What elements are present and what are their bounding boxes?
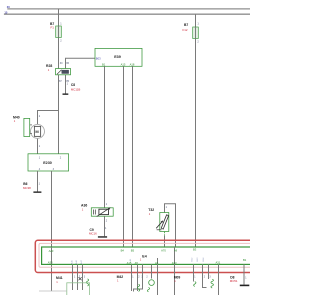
svg-text:2: 2 — [39, 115, 41, 118]
svg-text:1: 1 — [67, 82, 69, 85]
svg-text:B1: B1 — [243, 258, 247, 262]
svg-text:1: 1 — [132, 276, 134, 278]
svg-text:1: 1 — [106, 203, 108, 206]
svg-text:A33: A33 — [48, 261, 53, 265]
svg-text:1: 1 — [39, 182, 41, 185]
svg-text:E39: E39 — [114, 55, 121, 59]
svg-text:1: 1 — [166, 206, 168, 209]
svg-text:MC51: MC51 — [230, 279, 238, 283]
svg-text:1: 1 — [14, 119, 16, 123]
svg-text:2: 2 — [138, 276, 140, 278]
svg-text:MC16: MC16 — [89, 231, 97, 235]
svg-text:B3: B3 — [193, 248, 197, 252]
svg-text:1: 1 — [105, 227, 107, 230]
svg-text:2: 2 — [106, 220, 108, 223]
svg-text:1: 1 — [174, 279, 176, 283]
svg-text:1: 1 — [197, 23, 199, 26]
svg-text:E230: E230 — [43, 161, 52, 165]
svg-text:2: 2 — [204, 277, 206, 279]
svg-text:B5: B5 — [131, 249, 135, 253]
svg-text:T32: T32 — [148, 208, 154, 212]
svg-text:30: 30 — [7, 5, 10, 9]
svg-text:M09: M09 — [174, 275, 181, 279]
svg-text:1: 1 — [39, 145, 41, 148]
svg-text:1: 1 — [74, 277, 76, 279]
svg-text:1: 1 — [245, 278, 247, 280]
svg-text:1: 1 — [56, 280, 58, 284]
svg-text:86: 86 — [66, 62, 69, 65]
svg-text:A70: A70 — [161, 249, 166, 253]
svg-text:1: 1 — [48, 68, 50, 72]
svg-text:2: 2 — [197, 41, 199, 44]
svg-text:15: 15 — [4, 10, 7, 14]
svg-text:B03: B03 — [96, 57, 101, 61]
svg-text:3: 3 — [84, 277, 86, 279]
svg-text:A36: A36 — [81, 203, 87, 207]
svg-text:M40: M40 — [13, 115, 20, 119]
svg-text:87: 87 — [59, 80, 62, 83]
svg-text:3: 3 — [141, 276, 143, 278]
svg-text:A18: A18 — [130, 63, 135, 67]
svg-text:A6: A6 — [155, 261, 159, 265]
svg-text:1: 1 — [60, 23, 62, 26]
svg-text:1: 1 — [194, 277, 196, 279]
svg-text:2: 2 — [60, 40, 62, 43]
svg-text:30: 30 — [60, 62, 63, 65]
svg-text:MC11B: MC11B — [71, 87, 80, 91]
svg-text:E4: E4 — [142, 254, 146, 258]
svg-text:B4: B4 — [121, 249, 125, 253]
svg-text:MC38: MC38 — [23, 186, 31, 190]
svg-text:3: 3 — [209, 277, 211, 279]
svg-text:1: 1 — [149, 212, 151, 216]
svg-text:A31: A31 — [216, 261, 221, 265]
svg-text:1: 1 — [117, 279, 119, 283]
svg-text:A15: A15 — [121, 63, 126, 67]
svg-text:F12: F12 — [183, 28, 188, 32]
svg-text:2: 2 — [146, 277, 148, 279]
svg-text:A9: A9 — [174, 249, 178, 253]
svg-text:B1: B1 — [102, 63, 106, 67]
svg-text:C8: C8 — [71, 83, 75, 87]
svg-text:B7: B7 — [184, 23, 188, 27]
svg-text:M42: M42 — [117, 275, 124, 279]
svg-text:M41: M41 — [56, 276, 63, 280]
svg-text:A33: A33 — [172, 261, 177, 265]
svg-text:1: 1 — [82, 207, 84, 211]
svg-text:A23: A23 — [49, 249, 54, 253]
svg-text:F1: F1 — [51, 26, 55, 30]
svg-text:R28: R28 — [46, 64, 52, 68]
